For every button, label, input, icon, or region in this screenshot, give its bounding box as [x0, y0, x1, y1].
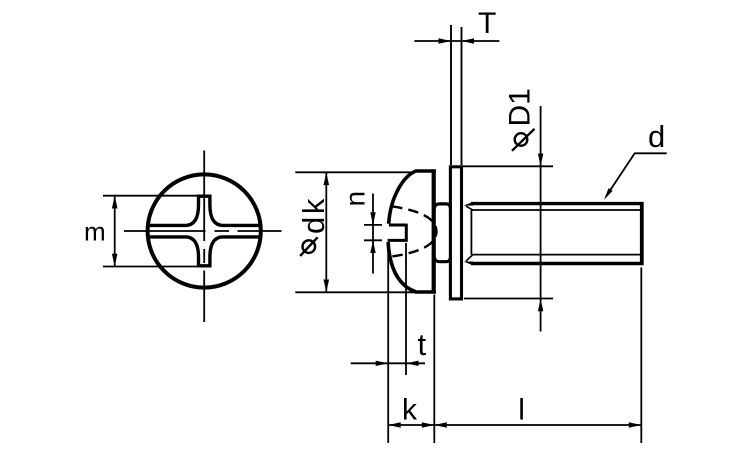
phi dk dimension line: [325, 172, 327, 292]
m extension line top: [103, 195, 198, 197]
phi D1 arrow down: [538, 154, 543, 167]
head outline circle: [148, 174, 261, 287]
t dimension line: [351, 362, 425, 364]
m dimension: [103, 196, 203, 267]
phi D1 label: [504, 88, 537, 151]
shaft thread crest top: [471, 202, 641, 205]
slot top edge: [389, 224, 406, 227]
m dimension line: [114, 196, 116, 267]
phi dk arrow down: [324, 280, 330, 293]
flat washer: [450, 167, 461, 299]
n arrow up: [370, 240, 375, 253]
phi dk extension lines: [295, 172, 429, 292]
k arrow left: [388, 422, 401, 427]
n arrow down: [370, 212, 375, 225]
phi D1 extension lines: [463, 166, 553, 298]
head bearing face: [432, 169, 436, 293]
k arrow right: [422, 422, 435, 427]
phi D1 dimension line: [540, 106, 542, 332]
svg-text:k: k: [402, 394, 418, 427]
n extension lines: [364, 225, 382, 240]
slot floor: [405, 224, 408, 242]
slot bottom edge: [388, 239, 407, 242]
svg-text:m: m: [84, 217, 106, 247]
m extension line bottom: [103, 266, 203, 268]
svg-text:n: n: [340, 191, 371, 207]
svg-text:dk: dk: [296, 196, 331, 234]
l right extension line: [640, 268, 642, 444]
vertical center line: [203, 151, 205, 323]
phi D1 arrow up: [538, 299, 543, 312]
t extension line (slot floor): [405, 243, 407, 375]
head lower dome arc + bottom flat: [388, 242, 436, 292]
k dimension line: [388, 424, 434, 426]
svg-text:l: l: [518, 394, 525, 427]
T arrow left: [462, 38, 475, 43]
T arrow right: [439, 38, 452, 43]
hidden recess (dashed): [392, 206, 437, 256]
t arrow left: [406, 361, 419, 366]
thread start wedge bottom: [463, 262, 473, 266]
thread start wedge top: [463, 202, 473, 206]
T dimension line: [414, 40, 499, 42]
spring washer top edge: [434, 204, 450, 209]
shaft thread crest bottom: [471, 262, 641, 265]
svg-text:D1: D1: [504, 88, 537, 126]
T extension lines: [451, 25, 462, 165]
m arrow up: [112, 196, 118, 209]
svg-text:T: T: [478, 7, 496, 40]
spring washer bottom edge: [434, 257, 450, 262]
thread runout vertical: [470, 210, 472, 255]
k right / l left extension line: [433, 295, 435, 444]
d leader line: [606, 153, 667, 196]
upper half of cross: [148, 196, 261, 225]
shaft end face: [640, 202, 644, 265]
t/k left extension line (dome tip): [387, 248, 389, 443]
phi dk arrow up: [324, 172, 330, 185]
thread runout diagonal bottom: [466, 255, 473, 261]
l dimension line: [434, 424, 641, 426]
m arrow down: [112, 254, 118, 267]
phillips recess cross: [148, 196, 261, 266]
phi dk label: [296, 196, 331, 256]
thread runout diagonal top: [466, 206, 473, 210]
lower half of cross: [148, 237, 261, 266]
horizontal center line: [124, 230, 282, 232]
thread root bottom: [472, 254, 641, 256]
svg-text:t: t: [418, 327, 427, 362]
n dimension line: [372, 194, 374, 274]
l arrow left: [434, 422, 447, 427]
driver slot (side view): [388, 224, 407, 242]
head profile: dome left, flat face right: [388, 171, 436, 292]
svg-text:d: d: [648, 119, 665, 154]
head top flat + upper dome arc: [389, 171, 436, 224]
thread root top: [472, 209, 641, 211]
d leader arrow: [604, 188, 613, 200]
t arrow right: [376, 361, 389, 366]
l arrow right: [629, 422, 642, 427]
